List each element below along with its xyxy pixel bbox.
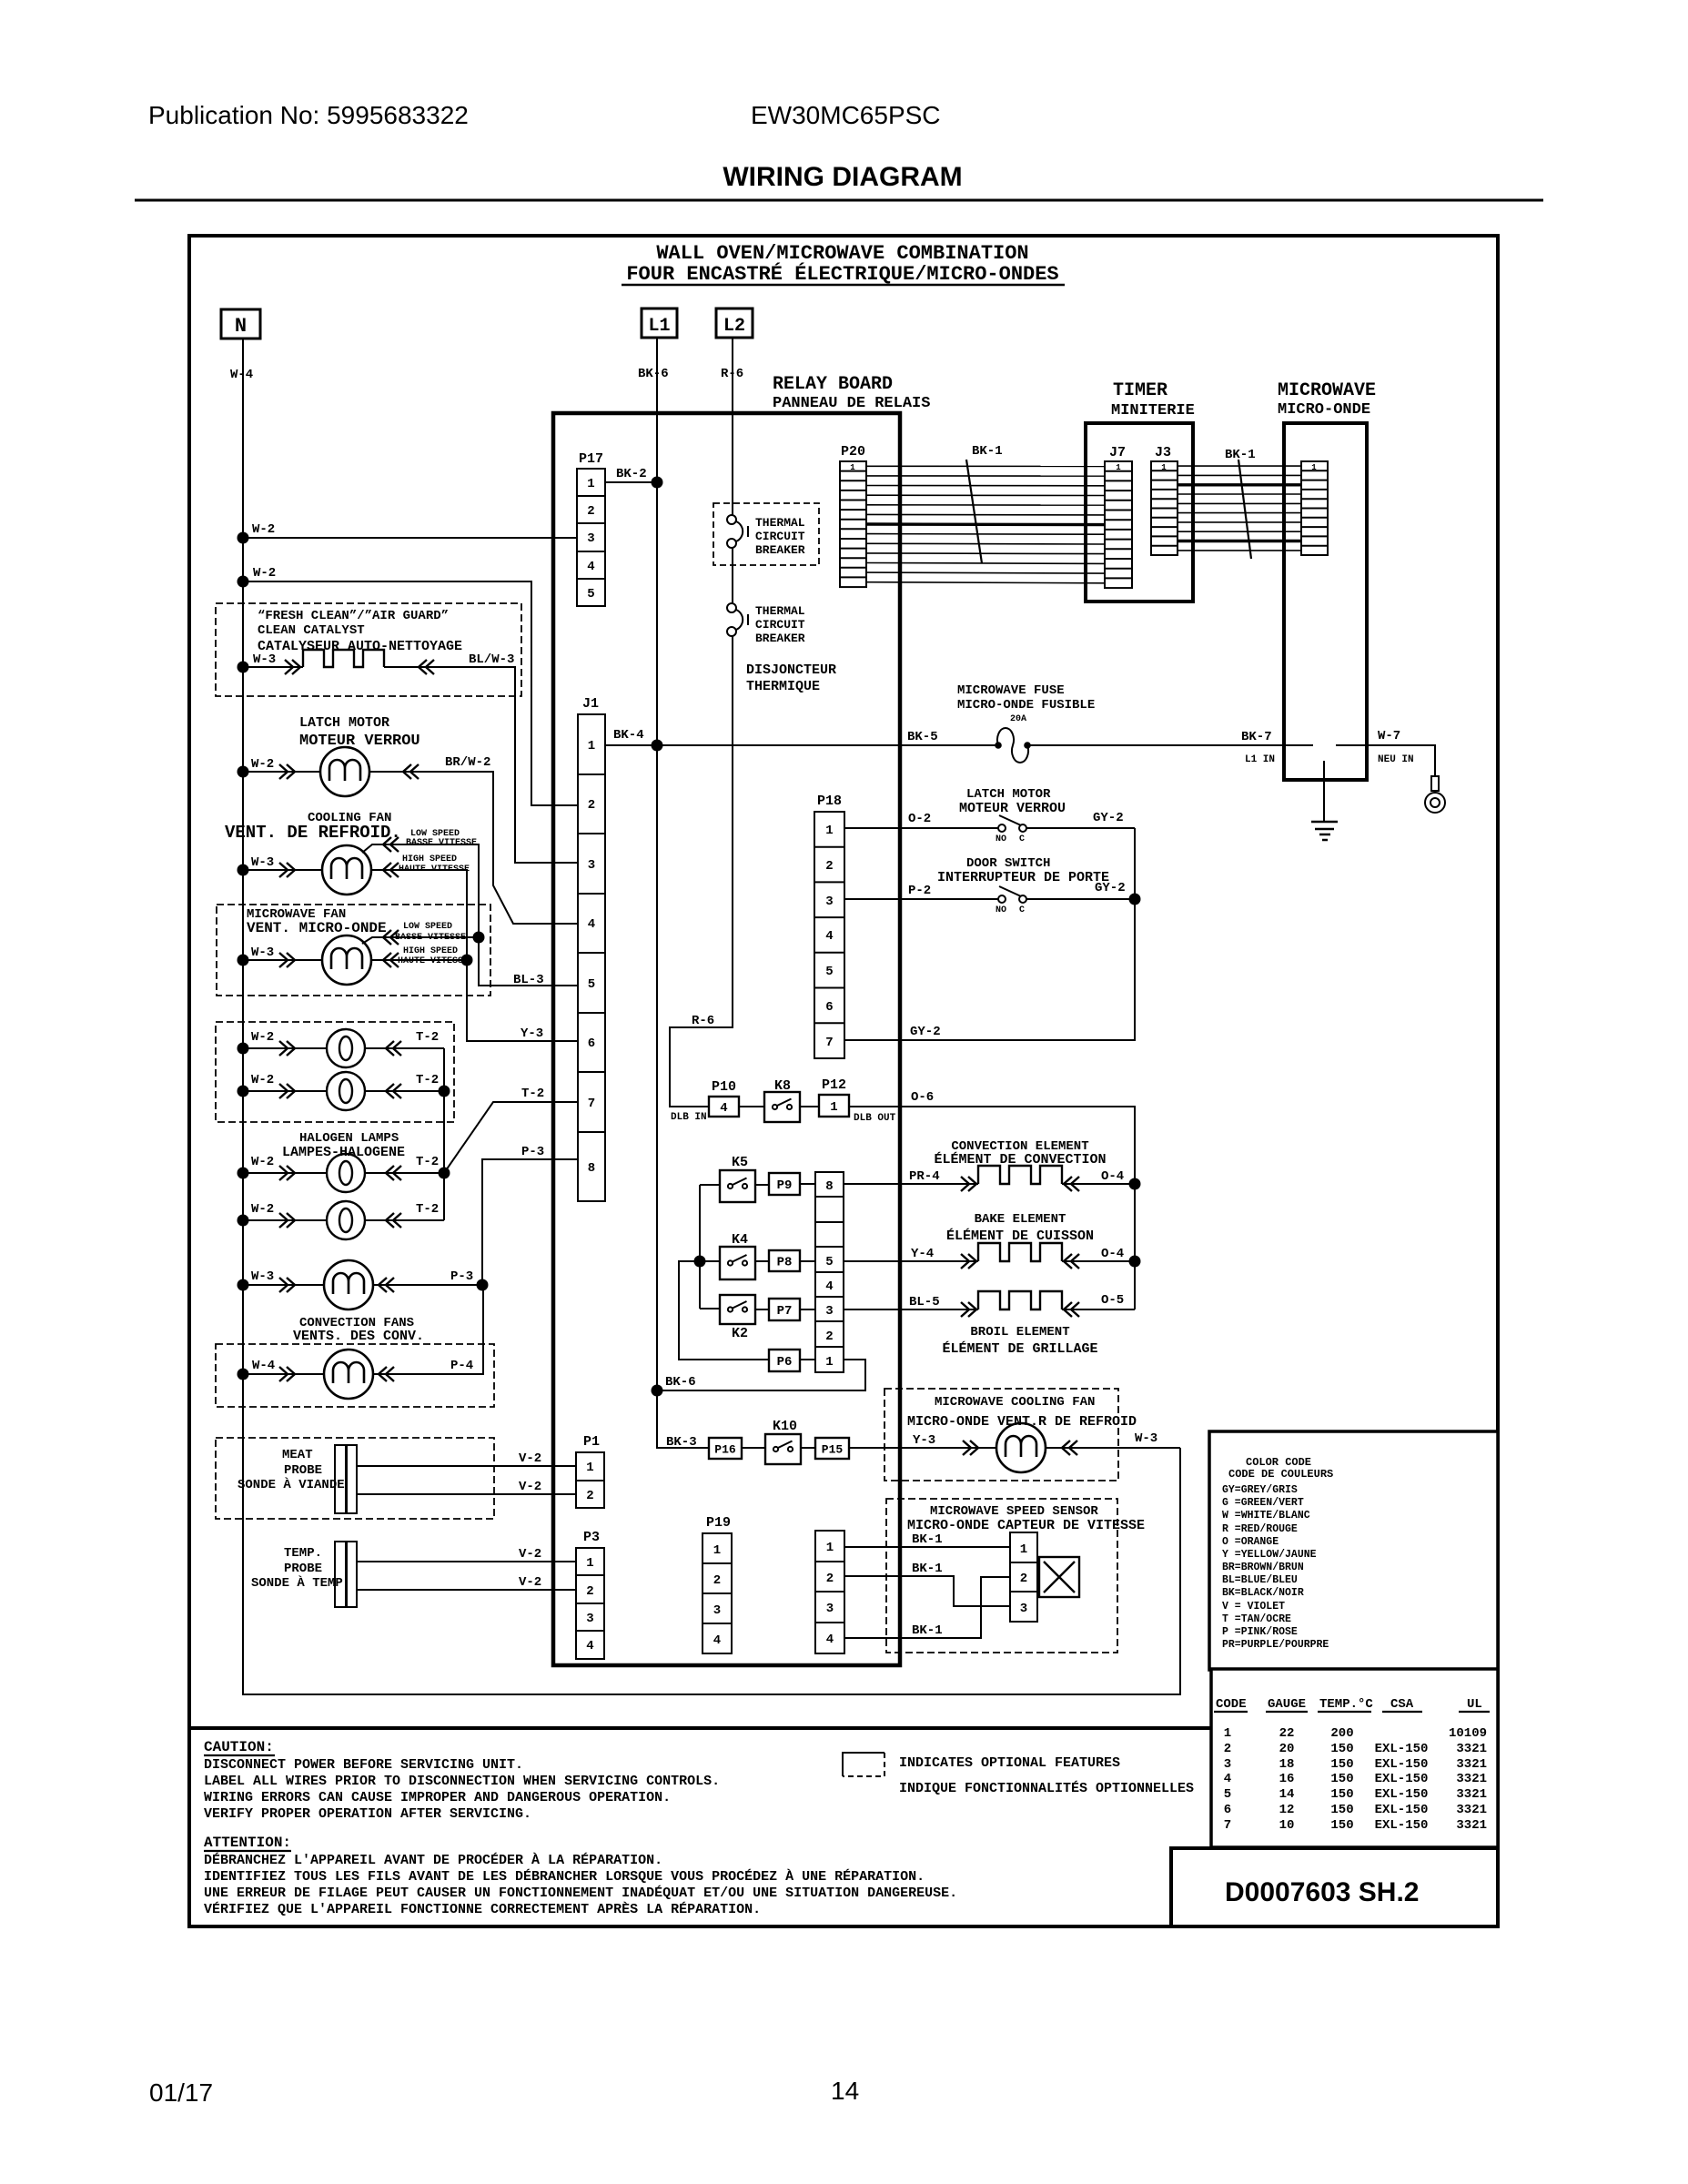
ring terminal — [1425, 776, 1445, 813]
svg-text:150: 150 — [1330, 1787, 1353, 1802]
svg-text:TEMP.°C: TEMP.°C — [1319, 1697, 1373, 1712]
junction dot on neutral rail y=1199 — [238, 1086, 249, 1097]
microwave cooling fan dashed box — [884, 1389, 1118, 1481]
svg-text:O-6: O-6 — [911, 1090, 934, 1105]
svg-text:7: 7 — [825, 1036, 833, 1050]
junction dot O-4 bake — [1129, 1256, 1141, 1268]
svg-text:LOW SPEED: LOW SPEED — [403, 922, 452, 932]
caution body — [204, 1757, 720, 1822]
svg-text:T-2: T-2 — [416, 1030, 439, 1045]
svg-text:HAUTE VITESSE: HAUTE VITESSE — [398, 956, 469, 966]
microwave cooling fan motor — [996, 1423, 1046, 1472]
svg-text:V = VIOLET: V = VIOLET — [1222, 1601, 1285, 1613]
svg-text:20A: 20A — [1010, 714, 1026, 724]
wire BK-1 sensor row2 — [844, 1576, 1010, 1606]
svg-text:3: 3 — [825, 1304, 833, 1319]
svg-text:T-2: T-2 — [416, 1155, 439, 1169]
svg-text:BK-4: BK-4 — [613, 728, 644, 743]
svg-text:1: 1 — [826, 1541, 834, 1555]
svg-text:MEAT: MEAT — [282, 1448, 313, 1462]
svg-text:W-3: W-3 — [251, 855, 274, 870]
svg-text:V-2: V-2 — [519, 1451, 541, 1466]
svg-text:W-2: W-2 — [251, 757, 274, 772]
svg-text:BK-1: BK-1 — [912, 1532, 943, 1547]
svg-text:1: 1 — [1311, 463, 1317, 472]
connector P7 — [769, 1299, 800, 1320]
svg-text:W-2: W-2 — [251, 1202, 274, 1217]
svg-text:4: 4 — [825, 929, 833, 944]
connector J7 — [1105, 445, 1132, 588]
svg-text:Publication No: 5995683322: Publication No: 5995683322 — [148, 101, 469, 129]
chevron mwcool right — [1062, 1441, 1077, 1455]
connector microwave speed sensor connector — [1010, 1532, 1037, 1622]
svg-text:10109: 10109 — [1449, 1726, 1487, 1741]
wire P10 to K8 — [739, 1106, 764, 1107]
svg-text:MOTEUR VERROU: MOTEUR VERROU — [959, 801, 1066, 816]
wire W-2 latch motor row BR/W-2 to J1-4 — [243, 772, 578, 924]
svg-text:CIRCUIT: CIRCUIT — [755, 618, 805, 632]
attention body — [204, 1852, 957, 1917]
junction dot on neutral rail y=1510 — [238, 1369, 249, 1380]
svg-text:GAUGE: GAUGE — [1268, 1697, 1306, 1712]
microwave chassis ground stem — [1323, 761, 1325, 822]
svg-text:O-4: O-4 — [1101, 1247, 1124, 1261]
wire lamp right riser — [443, 1048, 445, 1220]
svg-text:P3: P3 — [583, 1530, 600, 1545]
svg-text:1: 1 — [825, 824, 833, 838]
thermal circuit breaker 1 optional dashed box — [713, 503, 819, 565]
svg-text:EW30MC65PSC: EW30MC65PSC — [751, 101, 941, 129]
wire P9 to stack8 — [800, 1183, 815, 1185]
svg-text:BK-1: BK-1 — [912, 1562, 943, 1576]
svg-text:3321: 3321 — [1456, 1818, 1487, 1833]
title rule — [135, 199, 1543, 202]
chevron convfan1 right — [379, 1278, 394, 1292]
svg-text:BL-3: BL-3 — [513, 973, 544, 987]
svg-text:ÉLÉMENT DE GRILLAGE: ÉLÉMENT DE GRILLAGE — [942, 1340, 1097, 1357]
wire K4 to P8 — [755, 1260, 769, 1262]
svg-text:ATTENTION:: ATTENTION: — [204, 1835, 291, 1851]
relay K5 — [720, 1170, 755, 1202]
relay K10 — [765, 1434, 801, 1464]
svg-text:R-6: R-6 — [721, 367, 743, 381]
svg-text:LAMPES-HALOGENE: LAMPES-HALOGENE — [282, 1145, 405, 1160]
wire meat probe to P1-1 — [358, 1465, 576, 1467]
svg-text:4: 4 — [720, 1101, 727, 1116]
svg-text:3: 3 — [588, 858, 595, 873]
junction dot on neutral rail y=1055 — [238, 955, 249, 966]
svg-text:1: 1 — [1161, 463, 1167, 472]
svg-text:O =ORANGE: O =ORANGE — [1222, 1536, 1279, 1548]
svg-text:MICROWAVE SPEED SENSOR: MICROWAVE SPEED SENSOR — [930, 1504, 1098, 1519]
svg-text:P1: P1 — [583, 1434, 600, 1450]
svg-text:P8: P8 — [777, 1256, 793, 1270]
svg-text:22: 22 — [1279, 1726, 1295, 1741]
svg-text:W-2: W-2 — [251, 1073, 274, 1087]
chevron convection left — [961, 1177, 976, 1191]
svg-text:LATCH MOTOR: LATCH MOTOR — [299, 715, 389, 731]
svg-text:BROIL ELEMENT: BROIL ELEMENT — [970, 1325, 1069, 1340]
svg-text:16: 16 — [1279, 1772, 1295, 1786]
wire temp probe to P3-2 — [358, 1589, 576, 1591]
svg-text:P-2: P-2 — [908, 884, 931, 898]
svg-text:W-2: W-2 — [251, 1030, 274, 1045]
svg-text:1: 1 — [588, 739, 595, 753]
connector P9 — [769, 1173, 800, 1195]
svg-text:BK-6: BK-6 — [665, 1375, 696, 1390]
chevron mw fan left — [279, 953, 295, 967]
halogen lamp symbol 4 — [327, 1201, 365, 1239]
svg-text:DOOR SWITCH: DOOR SWITCH — [966, 856, 1050, 871]
junction dot on neutral rail y=1341 — [238, 1215, 249, 1227]
svg-text:DISCONNECT POWER BEFORE SERVIC: DISCONNECT POWER BEFORE SERVICING UNIT. — [204, 1757, 523, 1773]
junction dot mw fan high — [461, 955, 473, 966]
svg-text:BR=BROWN/BRUN: BR=BROWN/BRUN — [1222, 1562, 1304, 1573]
connector P10 — [709, 1097, 739, 1117]
svg-text:2: 2 — [1224, 1742, 1231, 1756]
svg-text:1: 1 — [586, 1461, 593, 1475]
svg-text:O-5: O-5 — [1101, 1293, 1124, 1308]
outer diagram border — [189, 236, 1498, 1728]
chevron convfan1 left — [279, 1278, 295, 1292]
wire halogen lamp row 4 — [243, 1219, 444, 1221]
svg-text:3321: 3321 — [1456, 1803, 1487, 1817]
chevron mwcool left — [963, 1441, 978, 1455]
junction dot on neutral rail y=1412 — [238, 1279, 249, 1291]
svg-text:MOTEUR VERROU: MOTEUR VERROU — [299, 733, 420, 750]
wire Y-4 bake element row — [844, 1260, 1135, 1262]
junction dot GY-2 — [1129, 894, 1141, 905]
chevron lamp2 left — [279, 1084, 295, 1098]
svg-text:O-4: O-4 — [1101, 1169, 1124, 1184]
svg-text:BK-6: BK-6 — [638, 367, 669, 381]
svg-text:J7: J7 — [1109, 445, 1126, 460]
svg-text:EXL-150: EXL-150 — [1375, 1742, 1429, 1756]
chevron lamp3 left — [279, 1166, 295, 1180]
halogen lamp symbol 2 — [327, 1072, 365, 1110]
svg-text:INTERRUPTEUR DE PORTE: INTERRUPTEUR DE PORTE — [937, 870, 1109, 885]
svg-text:VENT. MICRO-ONDE: VENT. MICRO-ONDE — [247, 920, 387, 936]
svg-text:200: 200 — [1330, 1726, 1353, 1741]
color code list — [1222, 1484, 1329, 1651]
svg-text:P12: P12 — [822, 1077, 846, 1093]
svg-text:COLOR CODE: COLOR CODE — [1246, 1456, 1311, 1469]
thermal circuit breaker 1 symbol — [727, 515, 748, 548]
junction dot on neutral rail y=591 — [238, 532, 249, 544]
timer box — [1086, 423, 1193, 602]
svg-text:THERMAL: THERMAL — [755, 516, 805, 530]
relay K4 — [720, 1247, 755, 1279]
wire halogen lamp row 2 — [243, 1090, 444, 1092]
wire P-3 riser to J1-8 — [482, 1159, 578, 1285]
relay K8 — [764, 1092, 800, 1122]
junction dot on neutral rail y=956 — [238, 864, 249, 876]
svg-text:VÉRIFIEZ QUE L'APPAREIL FONCTI: VÉRIFIEZ QUE L'APPAREIL FONCTIONNE CORRE… — [204, 1901, 761, 1917]
wire P8 to stack5 — [800, 1260, 815, 1262]
svg-text:BREAKER: BREAKER — [755, 543, 805, 557]
chevron lamp2 right — [386, 1084, 401, 1098]
svg-text:3: 3 — [825, 895, 833, 909]
svg-text:C: C — [1019, 905, 1025, 915]
svg-text:W-3: W-3 — [251, 1269, 274, 1284]
svg-text:Y-4: Y-4 — [911, 1247, 934, 1261]
svg-text:THERMIQUE: THERMIQUE — [746, 679, 820, 694]
latch motor switch symbol — [998, 815, 1026, 832]
svg-text:4: 4 — [826, 1633, 834, 1647]
svg-text:V-2: V-2 — [519, 1575, 541, 1590]
wire K8 to P12 — [800, 1106, 819, 1107]
microwave fan motor symbol — [322, 935, 371, 985]
svg-text:W-4: W-4 — [230, 368, 253, 382]
svg-text:K4: K4 — [732, 1232, 748, 1248]
svg-text:12: 12 — [1279, 1803, 1295, 1817]
connector P3 — [576, 1530, 604, 1659]
svg-text:EXL-150: EXL-150 — [1375, 1803, 1429, 1817]
chevron mw fan low — [383, 930, 399, 945]
chevron lamp4 left — [279, 1213, 295, 1228]
wire bundle BK-1 P20 to J7 — [866, 466, 1105, 583]
connector relay output stack J2 — [815, 1172, 844, 1372]
svg-text:150: 150 — [1330, 1757, 1353, 1772]
chevron bake left — [961, 1254, 976, 1269]
wire neutral rail W-4 from N to bottom and microwave cooling fan return — [243, 339, 1180, 1694]
junction dot on neutral rail y=1289 — [238, 1168, 249, 1179]
svg-text:3: 3 — [713, 1603, 721, 1618]
svg-text:BK-3: BK-3 — [666, 1435, 697, 1450]
svg-text:W-2: W-2 — [251, 1155, 274, 1169]
latch motor symbol — [320, 747, 369, 796]
svg-text:ÉLÉMENT DE CUISSON: ÉLÉMENT DE CUISSON — [946, 1228, 1094, 1244]
svg-text:3: 3 — [1020, 1602, 1027, 1616]
svg-text:BK-1: BK-1 — [1225, 448, 1256, 462]
svg-text:3: 3 — [1224, 1757, 1231, 1772]
svg-text:SONDE À TEMP: SONDE À TEMP — [251, 1574, 343, 1591]
svg-text:5: 5 — [588, 977, 595, 992]
svg-text:UNE ERREUR DE FILAGE PEUT CAUS: UNE ERREUR DE FILAGE PEUT CAUSER UN FONC… — [204, 1885, 957, 1901]
svg-text:18: 18 — [1279, 1757, 1295, 1772]
relay board outline — [553, 413, 900, 1665]
svg-text:K5: K5 — [732, 1155, 748, 1170]
wire K10 to P15 — [801, 1447, 815, 1449]
svg-text:VERIFY PROPER OPERATION AFTER: VERIFY PROPER OPERATION AFTER SERVICING. — [204, 1806, 531, 1822]
chevron convfan2 left — [279, 1367, 295, 1381]
wire microwave fan low speed tap — [362, 937, 479, 944]
svg-text:DLB IN: DLB IN — [671, 1112, 707, 1123]
caution underline — [204, 1754, 275, 1756]
wire W-3 microwave fan row — [243, 959, 467, 961]
junction dot K feed — [694, 1256, 706, 1268]
svg-text:BREAKER: BREAKER — [755, 632, 805, 645]
gauge header underlines — [1214, 1711, 1490, 1713]
svg-text:HALOGEN LAMPS: HALOGEN LAMPS — [299, 1131, 399, 1146]
svg-text:W-2: W-2 — [252, 522, 275, 537]
svg-text:K10: K10 — [773, 1419, 797, 1434]
svg-text:TIMER: TIMER — [1113, 380, 1167, 401]
svg-text:1: 1 — [830, 1100, 837, 1115]
svg-text:P20: P20 — [841, 444, 865, 460]
svg-text:MICRO-ONDE CAPTEUR DE VITESSE: MICRO-ONDE CAPTEUR DE VITESSE — [907, 1518, 1145, 1533]
svg-text:Y-3: Y-3 — [521, 1026, 543, 1041]
wire BK-2 P17-1 to BK-6 — [605, 481, 657, 483]
wire W-4 convection fan 2 row — [243, 1285, 483, 1374]
chevron convection right — [1064, 1177, 1079, 1191]
svg-text:P19: P19 — [706, 1515, 731, 1531]
svg-text:MICRO-ONDE FUSIBLE: MICRO-ONDE FUSIBLE — [957, 698, 1095, 713]
svg-text:SONDE À VIANDE: SONDE À VIANDE — [238, 1476, 345, 1492]
color code box — [1209, 1431, 1498, 1670]
connector microwave input connector — [1301, 461, 1328, 555]
svg-text:3: 3 — [586, 1612, 593, 1626]
svg-text:3321: 3321 — [1456, 1772, 1487, 1786]
svg-text:MICRO-ONDE VENT.R DE REFROID: MICRO-ONDE VENT.R DE REFROID — [907, 1414, 1137, 1430]
svg-text:BK-2: BK-2 — [616, 467, 647, 481]
svg-text:PANNEAU DE RELAIS: PANNEAU DE RELAIS — [773, 395, 930, 412]
wire BK-1 sensor row4 — [844, 1577, 1010, 1638]
svg-text:1: 1 — [1116, 463, 1121, 472]
wire temp probe to P3-1 — [358, 1561, 576, 1562]
junction dot BK-6 lower — [652, 1385, 663, 1397]
connector J3 — [1151, 445, 1178, 555]
chevron catalyst left — [285, 660, 300, 674]
svg-text:IDENTIFIEZ TOUS LES FILS AVANT: IDENTIFIEZ TOUS LES FILS AVANT DE LES DÉ… — [204, 1868, 925, 1885]
svg-text:Y =YELLOW/JAUNE: Y =YELLOW/JAUNE — [1222, 1549, 1317, 1561]
svg-text:CODE DE COULEURS: CODE DE COULEURS — [1228, 1468, 1333, 1481]
svg-text:EXL-150: EXL-150 — [1375, 1787, 1429, 1802]
wire BK-1 sensor row1 — [844, 1546, 1010, 1548]
svg-text:2: 2 — [587, 504, 594, 519]
svg-text:P15: P15 — [822, 1443, 844, 1457]
svg-text:6: 6 — [825, 1000, 833, 1015]
junction dot on neutral rail y=1152 — [238, 1043, 249, 1055]
svg-text:LATCH MOTOR: LATCH MOTOR — [966, 787, 1051, 802]
svg-text:PROBE: PROBE — [284, 1562, 322, 1576]
svg-text:T-2: T-2 — [416, 1073, 439, 1087]
svg-text:W-3: W-3 — [251, 945, 274, 960]
chevron cooling high speed — [383, 863, 399, 877]
svg-text:6: 6 — [1224, 1803, 1231, 1817]
connector P8 — [769, 1250, 800, 1271]
chevron convfan2 right — [379, 1367, 394, 1381]
wire P6 to stack1 — [800, 1359, 815, 1360]
svg-text:P17: P17 — [579, 451, 603, 467]
connector P18 — [814, 794, 844, 1058]
svg-text:P18: P18 — [817, 794, 842, 809]
svg-text:DÉBRANCHEZ L'APPAREIL AVANT DE: DÉBRANCHEZ L'APPAREIL AVANT DE PROCÉDER … — [204, 1852, 662, 1868]
svg-text:BK-1: BK-1 — [972, 444, 1003, 459]
svg-text:BL/W-3: BL/W-3 — [469, 652, 514, 667]
svg-text:BK=BLACK/NOIR: BK=BLACK/NOIR — [1222, 1587, 1304, 1599]
gauge table headers — [1216, 1697, 1482, 1712]
svg-text:R-6: R-6 — [692, 1014, 714, 1028]
svg-text:P16: P16 — [714, 1443, 736, 1457]
svg-text:EXL-150: EXL-150 — [1375, 1772, 1429, 1786]
svg-text:N: N — [235, 315, 247, 338]
halogen lamp symbol 1 — [327, 1029, 365, 1067]
svg-text:“FRESH CLEAN”/”AIR GUARD”: “FRESH CLEAN”/”AIR GUARD” — [258, 609, 449, 623]
wire bundle BK-1 J3 to microwave — [1178, 466, 1301, 551]
svg-text:R =RED/ROUGE: R =RED/ROUGE — [1222, 1523, 1298, 1535]
svg-text:4: 4 — [586, 1639, 593, 1653]
svg-text:7: 7 — [1224, 1818, 1231, 1833]
svg-text:3: 3 — [587, 531, 594, 546]
relay K2 — [720, 1295, 755, 1324]
svg-text:4: 4 — [713, 1633, 721, 1648]
catalyst heating element — [303, 650, 384, 667]
wire meat probe to P1-2 — [358, 1493, 576, 1495]
wire gauge table box — [1211, 1669, 1498, 1847]
svg-text:GY-2: GY-2 — [910, 1025, 941, 1039]
svg-text:14: 14 — [831, 2077, 859, 2105]
chevron broil left — [961, 1302, 976, 1317]
svg-text:2: 2 — [1020, 1572, 1027, 1586]
junction dot on neutral rail y=733 — [238, 662, 249, 673]
junction dot on neutral rail y=848 — [238, 766, 249, 778]
svg-text:01/17: 01/17 — [149, 2078, 213, 2107]
svg-text:PR-4: PR-4 — [909, 1169, 940, 1184]
svg-text:WIRING ERRORS CAN CAUSE IMPROP: WIRING ERRORS CAN CAUSE IMPROPER AND DAN… — [204, 1790, 671, 1805]
svg-text:10: 10 — [1279, 1818, 1295, 1833]
junction dot BK-4/BK-6 — [652, 740, 663, 752]
svg-text:NO: NO — [996, 905, 1006, 915]
svg-text:T =TAN/OCRE: T =TAN/OCRE — [1222, 1613, 1291, 1625]
halogen lamps dashed box — [216, 1022, 454, 1122]
chevron catalyst right — [419, 660, 434, 674]
sensor X box — [1039, 1557, 1079, 1597]
connector P15 — [815, 1438, 849, 1459]
svg-text:CSA: CSA — [1390, 1697, 1414, 1712]
svg-text:BK-5: BK-5 — [907, 730, 938, 744]
svg-text:CODE: CODE — [1216, 1697, 1247, 1712]
wire K5 to P9 — [755, 1184, 769, 1186]
junction dot BK-2/BK-6 — [652, 477, 663, 489]
wire cooling fan low speed tap — [362, 844, 578, 986]
svg-text:O-2: O-2 — [908, 812, 931, 826]
svg-text:P-3: P-3 — [450, 1269, 473, 1284]
wire halogen lamp row 1 — [243, 1047, 444, 1049]
svg-text:6: 6 — [588, 1036, 595, 1051]
node N terminal box — [221, 309, 260, 339]
bake heating element — [978, 1243, 1062, 1261]
svg-text:1: 1 — [825, 1355, 833, 1370]
connector P19 — [702, 1515, 732, 1653]
svg-text:CATALYSEUR AUTO-NETTOYAGE: CATALYSEUR AUTO-NETTOYAGE — [258, 639, 462, 654]
wire P18-3 door switch — [844, 898, 1135, 900]
wire BL-5 broil element row — [844, 1309, 1135, 1310]
svg-text:P7: P7 — [777, 1304, 793, 1319]
wire Y-3 microwave cooling fan row — [849, 1447, 1180, 1449]
svg-text:3321: 3321 — [1456, 1757, 1487, 1772]
svg-text:20: 20 — [1279, 1742, 1295, 1756]
svg-text:3321: 3321 — [1456, 1787, 1487, 1802]
svg-text:8: 8 — [825, 1179, 833, 1194]
svg-text:LABEL ALL WIRES PRIOR TO DISCO: LABEL ALL WIRES PRIOR TO DISCONNECTION W… — [204, 1774, 720, 1789]
thermal circuit breaker 2 symbol — [727, 603, 748, 636]
ground symbol — [1311, 822, 1338, 840]
fresh clean catalyst dashed box — [216, 603, 521, 696]
svg-text:RELAY BOARD: RELAY BOARD — [773, 374, 893, 395]
svg-text:2: 2 — [713, 1573, 721, 1588]
svg-text:2: 2 — [586, 1584, 593, 1599]
wire W-7 microwave to ring terminal — [1336, 745, 1435, 776]
svg-text:FOUR ENCASTRÉ ÉLECTRIQUE/MICRO: FOUR ENCASTRÉ ÉLECTRIQUE/MICRO-ONDES — [626, 262, 1058, 286]
svg-text:THERMAL: THERMAL — [755, 604, 805, 618]
wire BK-7 fuse to microwave — [1027, 744, 1313, 746]
chevron lamp1 right — [386, 1041, 401, 1056]
svg-text:MICROWAVE COOLING FAN: MICROWAVE COOLING FAN — [935, 1395, 1095, 1410]
svg-text:4: 4 — [825, 1279, 833, 1294]
svg-text:TEMP.: TEMP. — [284, 1546, 322, 1561]
microwave box — [1284, 423, 1367, 780]
